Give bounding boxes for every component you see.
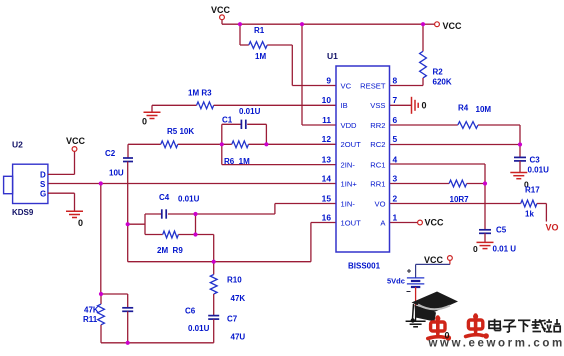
- svg-text:1M R3: 1M R3: [188, 89, 212, 98]
- svg-text:15: 15: [322, 193, 332, 203]
- svg-text:C2: C2: [105, 149, 116, 158]
- svg-text:1: 1: [393, 212, 398, 222]
- svg-text:VCC: VCC: [425, 218, 445, 228]
- svg-text:12: 12: [322, 134, 332, 144]
- svg-text:R1: R1: [254, 26, 265, 35]
- svg-text:VCC: VCC: [66, 136, 86, 146]
- svg-text:0: 0: [142, 117, 147, 127]
- svg-text:R4: R4: [458, 104, 469, 113]
- svg-text:0: 0: [78, 218, 83, 228]
- svg-text:RR2: RR2: [370, 121, 385, 130]
- svg-text:9: 9: [326, 75, 331, 85]
- svg-text:2OUT: 2OUT: [341, 140, 362, 149]
- svg-text:0: 0: [422, 101, 427, 111]
- svg-text:R10: R10: [227, 276, 242, 285]
- svg-text:3: 3: [393, 173, 398, 183]
- svg-text:G: G: [40, 189, 46, 198]
- svg-text:16: 16: [322, 212, 332, 222]
- svg-text:5Vdc: 5Vdc: [387, 277, 405, 286]
- svg-text:0: 0: [473, 244, 478, 254]
- svg-text:47K: 47K: [84, 306, 99, 315]
- svg-text:C4: C4: [159, 193, 170, 202]
- svg-text:4: 4: [393, 154, 398, 164]
- svg-text:R5 10K: R5 10K: [167, 127, 194, 136]
- svg-text:47K: 47K: [231, 294, 246, 303]
- svg-text:U2: U2: [12, 140, 23, 150]
- svg-text:R17: R17: [525, 186, 540, 195]
- svg-text:VC: VC: [341, 81, 352, 90]
- svg-text:C1: C1: [222, 116, 233, 125]
- svg-text:VCC: VCC: [211, 5, 231, 15]
- svg-text:S: S: [40, 180, 46, 189]
- svg-text:7: 7: [393, 95, 398, 105]
- svg-text:RC1: RC1: [370, 160, 385, 169]
- svg-text:RR1: RR1: [370, 179, 385, 188]
- svg-text:0.01U: 0.01U: [528, 166, 550, 175]
- svg-text:VO: VO: [375, 199, 386, 208]
- svg-text:C5: C5: [496, 226, 507, 235]
- svg-text:D: D: [40, 171, 46, 180]
- svg-text:R11: R11: [83, 315, 98, 324]
- svg-text:14: 14: [322, 173, 332, 183]
- svg-text:2: 2: [393, 193, 398, 203]
- svg-text:8: 8: [393, 75, 398, 85]
- svg-text:1IN-: 1IN-: [341, 199, 356, 208]
- svg-text:C6: C6: [185, 307, 196, 316]
- svg-text:RC2: RC2: [370, 140, 385, 149]
- svg-text:VCC: VCC: [424, 255, 444, 265]
- svg-text:VDD: VDD: [341, 121, 358, 130]
- svg-text:47U: 47U: [231, 333, 246, 342]
- svg-text:620K: 620K: [433, 78, 452, 87]
- svg-text:11: 11: [322, 115, 331, 125]
- svg-text:2IN-: 2IN-: [341, 160, 356, 169]
- svg-text:1k: 1k: [525, 210, 534, 219]
- svg-text:R2: R2: [433, 68, 444, 77]
- svg-text:10U: 10U: [109, 169, 124, 178]
- svg-text:10: 10: [322, 95, 332, 105]
- svg-text:6: 6: [393, 115, 398, 125]
- svg-text:13: 13: [322, 154, 332, 164]
- svg-text:www.eeworm.com: www.eeworm.com: [428, 338, 564, 350]
- svg-text:0.01 U: 0.01 U: [493, 245, 517, 254]
- svg-text:2M R9: 2M R9: [157, 246, 183, 255]
- svg-text:VCC: VCC: [443, 21, 463, 31]
- svg-text:0.01U: 0.01U: [188, 324, 210, 333]
- svg-text:RESET: RESET: [360, 81, 386, 90]
- svg-text:5: 5: [393, 134, 398, 144]
- svg-text:1IN+: 1IN+: [341, 179, 358, 188]
- svg-text:10R7: 10R7: [450, 195, 470, 204]
- svg-text:BISS001: BISS001: [348, 262, 381, 271]
- svg-text:VO: VO: [546, 223, 559, 233]
- svg-text:10M: 10M: [476, 105, 492, 114]
- svg-text:0.01U: 0.01U: [239, 107, 261, 116]
- svg-text:1OUT: 1OUT: [341, 218, 362, 227]
- svg-text:C3: C3: [530, 156, 541, 165]
- svg-text:0.01U: 0.01U: [178, 195, 200, 204]
- svg-text:IB: IB: [341, 101, 348, 110]
- svg-text:KDS9: KDS9: [12, 208, 34, 217]
- svg-text:VSS: VSS: [370, 101, 385, 110]
- svg-text:C7: C7: [227, 315, 238, 324]
- svg-text:U1: U1: [327, 51, 338, 61]
- svg-text:R6 1M: R6 1M: [224, 157, 250, 166]
- svg-text:1M: 1M: [255, 52, 266, 61]
